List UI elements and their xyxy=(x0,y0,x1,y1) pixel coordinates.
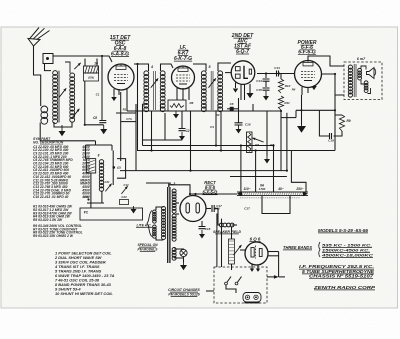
wire xyxy=(90,173,92,208)
junction xyxy=(265,72,280,74)
wire xyxy=(218,63,231,71)
ground xyxy=(180,262,187,270)
wire xyxy=(146,183,169,187)
wire xyxy=(262,196,290,214)
wire xyxy=(319,110,329,136)
wire xyxy=(176,202,179,204)
junction xyxy=(84,195,90,201)
antenna coil L1 secondary xyxy=(65,62,75,122)
ground xyxy=(247,84,254,98)
speaker field coil xyxy=(213,223,241,234)
wire xyxy=(232,224,237,226)
wire xyxy=(34,46,41,106)
tube V3 2ND DET AVC 6-Q-7-G xyxy=(231,61,255,85)
junction xyxy=(280,110,282,112)
pilot lamp xyxy=(174,249,187,258)
wire xyxy=(142,104,144,146)
wire xyxy=(95,141,97,145)
capacitor C13 xyxy=(274,66,280,77)
trimmer C21 xyxy=(105,180,112,191)
wire xyxy=(266,73,295,75)
trimmer C1 xyxy=(74,63,80,69)
capacitor C17 xyxy=(212,204,222,212)
wire xyxy=(85,145,87,159)
antenna coil L1 tickler xyxy=(41,106,48,124)
label tube V3 xyxy=(231,33,254,55)
trimmer C22 xyxy=(121,183,129,194)
capacitor C23 xyxy=(120,195,129,205)
wire xyxy=(134,64,149,71)
label MODELS xyxy=(318,228,368,233)
padder block 8 xyxy=(86,154,99,174)
label tube V6 xyxy=(249,237,261,242)
wire xyxy=(253,111,267,137)
antenna coil L1 primary xyxy=(53,71,59,124)
wire xyxy=(87,202,104,204)
trimmer C3 xyxy=(59,88,66,97)
resistor R1 xyxy=(116,92,136,171)
wire xyxy=(190,193,237,195)
label tube V4 xyxy=(298,40,317,56)
ground xyxy=(263,91,269,101)
label R14 xyxy=(292,88,296,92)
line choke xyxy=(147,207,163,240)
wire xyxy=(281,117,296,119)
wire xyxy=(151,111,153,151)
dashed box PM circuit xyxy=(214,267,267,303)
wire xyxy=(257,74,266,79)
tube V3 pins xyxy=(233,83,245,101)
wire xyxy=(265,82,267,88)
ground xyxy=(179,132,185,141)
label C20 xyxy=(113,166,121,170)
tube V1 pins xyxy=(111,89,127,101)
wire xyxy=(280,74,282,80)
label tube V1 xyxy=(110,35,132,58)
parts list table xyxy=(33,137,115,296)
wire xyxy=(201,221,203,226)
tube V2 IF 6-K-7-G xyxy=(172,66,195,89)
capacitor C16 xyxy=(235,123,251,127)
wire xyxy=(137,64,139,151)
capacitor C8 xyxy=(225,73,239,111)
wire xyxy=(112,151,114,186)
resistor R10 xyxy=(278,79,290,93)
tube V1 1ST DET OSC 6-A-8-G xyxy=(108,64,134,90)
capacitor C19 xyxy=(328,133,334,143)
wire xyxy=(295,110,297,117)
connector arrow xyxy=(267,275,285,279)
wire xyxy=(231,264,233,270)
capacitor C14 xyxy=(256,79,269,83)
wire xyxy=(240,146,242,193)
wire xyxy=(255,151,257,193)
wire xyxy=(216,214,218,268)
wire xyxy=(301,95,303,110)
trimmer C5 xyxy=(73,109,80,118)
power transformer T4 xyxy=(162,187,177,263)
label ZENITH xyxy=(313,285,376,291)
wire xyxy=(126,95,128,111)
trimmer R7 arm xyxy=(252,138,263,142)
wire xyxy=(215,209,220,226)
wire xyxy=(226,285,236,293)
ground xyxy=(264,156,270,164)
wire half-box xyxy=(117,159,126,179)
tube V6 pins xyxy=(250,265,260,272)
junction xyxy=(189,193,197,195)
oscillator coil L2 xyxy=(99,160,103,192)
wire xyxy=(230,176,287,178)
wire xyxy=(280,110,282,171)
antenna xyxy=(28,28,50,47)
wire xyxy=(143,145,274,147)
wire xyxy=(220,111,222,151)
field coil xyxy=(229,239,235,264)
wire xyxy=(137,150,335,152)
plug P1 xyxy=(243,293,261,303)
shield PC xyxy=(80,208,143,220)
junction xyxy=(334,73,336,75)
ground xyxy=(236,126,242,134)
IF transformer T2 xyxy=(201,65,222,112)
wire xyxy=(190,111,192,171)
label CIRCUIT CHANGES xyxy=(168,288,214,297)
voltage chart xyxy=(237,184,308,198)
ground xyxy=(131,206,137,214)
wire xyxy=(101,56,103,121)
wire xyxy=(215,111,217,146)
wire xyxy=(268,251,279,253)
tube V4 pins xyxy=(302,85,317,95)
ground xyxy=(59,125,66,136)
wire xyxy=(278,252,280,277)
wire xyxy=(334,131,343,136)
misc labels xyxy=(96,93,250,211)
wire xyxy=(183,257,185,262)
capacitor C18 xyxy=(199,227,211,232)
tube V4 POWER 6-F-6-G xyxy=(295,61,322,88)
wire xyxy=(195,194,197,196)
tube V5 RECT 6-X-5 xyxy=(180,196,206,222)
wire xyxy=(322,74,345,95)
label R3 xyxy=(216,113,220,117)
switch S1 xyxy=(43,54,53,71)
wire xyxy=(101,191,103,203)
wire xyxy=(161,64,174,71)
wire xyxy=(86,144,113,146)
wire xyxy=(169,185,190,194)
IF transformer T1 xyxy=(144,65,165,112)
ground xyxy=(297,125,306,133)
wire xyxy=(111,145,113,151)
wire xyxy=(164,113,166,140)
wire xyxy=(206,208,211,210)
wire xyxy=(85,81,104,125)
resistor R6 xyxy=(168,100,194,111)
wire xyxy=(40,123,95,141)
ground xyxy=(199,230,205,239)
wire xyxy=(231,227,233,239)
wire xyxy=(286,113,288,171)
coil 10 wave trap xyxy=(84,59,99,82)
wire xyxy=(296,109,335,111)
resistor R9 xyxy=(339,115,350,131)
label R4 xyxy=(270,143,274,147)
capacitor C8A xyxy=(93,116,106,123)
wire xyxy=(301,110,303,125)
junction xyxy=(334,109,336,111)
label IF FREQUENCY xyxy=(299,264,375,279)
wire xyxy=(268,255,279,257)
wire xyxy=(127,110,281,112)
tube V6 6Q6 xyxy=(245,242,268,265)
wire xyxy=(143,104,219,111)
label LITE AC xyxy=(136,224,152,228)
label SPECIAL xyxy=(137,243,158,252)
wire xyxy=(240,249,245,251)
label THREE BANDS xyxy=(283,242,373,258)
capacitor C15 xyxy=(256,88,269,92)
wire xyxy=(273,146,275,193)
wire xyxy=(143,139,183,141)
trimmer C9 xyxy=(151,78,158,87)
wire xyxy=(335,110,342,115)
wire xyxy=(334,95,336,151)
wire xyxy=(181,111,183,128)
ground xyxy=(173,111,179,119)
wire xyxy=(176,213,179,215)
wire xyxy=(238,98,240,123)
trimmer field arm xyxy=(234,245,242,255)
label B3 xyxy=(169,182,176,186)
ground xyxy=(100,125,107,134)
resistor R11 xyxy=(278,96,290,110)
trimmer C11 xyxy=(209,78,216,87)
wire xyxy=(221,219,223,267)
wire xyxy=(291,151,306,193)
potentiometer R7 xyxy=(247,132,260,153)
wire xyxy=(53,56,112,62)
switch S2 xyxy=(225,277,242,285)
capacitor C2 xyxy=(179,129,190,134)
output transformer T3 and speaker xyxy=(344,57,382,100)
label tube V5 xyxy=(202,180,218,195)
junction xyxy=(84,55,303,172)
wire xyxy=(308,56,344,66)
wire xyxy=(193,64,206,71)
wire xyxy=(252,104,254,111)
tube V2 pins xyxy=(177,88,189,100)
label tube V2 xyxy=(174,45,192,62)
wire xyxy=(54,122,72,127)
wire xyxy=(120,170,287,172)
wire xyxy=(266,137,268,156)
